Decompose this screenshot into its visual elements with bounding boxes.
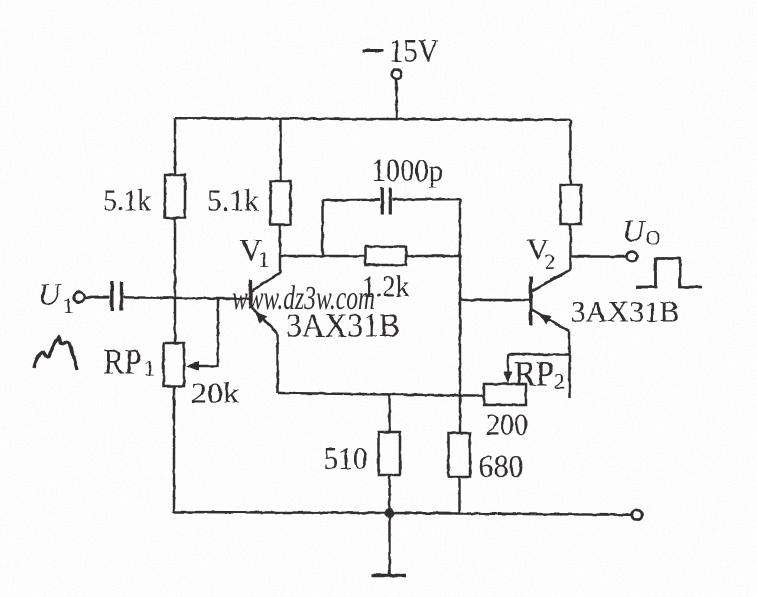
wire emitter rail [278, 393, 485, 396]
wire cap branch right horizontal [393, 198, 461, 201]
wire left branch lower [173, 386, 175, 513]
potentiometer RP1 body [164, 343, 185, 386]
resistor R1 5.1k body [165, 175, 185, 218]
watermark www.dz3w.com [232, 280, 375, 317]
wire cap branch left horizontal [323, 198, 381, 201]
RP1 wiper arrowhead [186, 361, 199, 371]
transistor V1 emitter diagonal [252, 307, 278, 335]
resistor R6 510 body [379, 432, 401, 475]
wire RP2 wiper top line [508, 353, 570, 355]
wire V2 base line [460, 299, 530, 301]
wire ground stem [388, 513, 390, 575]
transistor V2 emitter diagonal [532, 310, 570, 332]
transistor V1 base bar [249, 280, 252, 309]
wire 510 upper [388, 394, 390, 432]
wire left branch middle [174, 218, 176, 343]
resistor R4 680 body [449, 433, 471, 477]
transistor V1 emitter arrowhead PNP [255, 312, 267, 324]
wire 5.1k no2 upper [279, 119, 281, 181]
transistor V2 emitter arrowhead PNP [538, 314, 552, 325]
minus sign of -15V [363, 49, 384, 52]
output terminal circle [627, 252, 637, 262]
wire left branch upper [174, 118, 176, 175]
resistor R2 5.1k body [271, 181, 291, 225]
wire supply drop [395, 79, 397, 119]
wire 680 lower [458, 477, 460, 513]
wire cap branch left vertical [321, 200, 323, 256]
wire top rail [175, 118, 571, 120]
transistor V2 base bar [529, 277, 532, 326]
output ground terminal circle [632, 510, 642, 520]
supply terminal -15V circle [392, 70, 402, 80]
wire input to capacitor [85, 296, 110, 298]
wire 1.2k line [280, 255, 460, 257]
wire V2 emitter drop [568, 332, 570, 399]
capacitor C2 1000p plates [382, 188, 390, 215]
wire RP2 wiper vertical [507, 355, 509, 373]
resistor R3 1.2k body [366, 247, 407, 266]
RP2 wiper arrowhead [504, 372, 513, 384]
capacitor C1 input plates [112, 282, 122, 312]
wire input line to V1 base [124, 297, 250, 299]
transistor V1 collector diagonal [252, 273, 281, 292]
output pulse waveform icon [636, 259, 702, 288]
wire V2 collector to output [571, 224, 627, 257]
input terminal circle [74, 292, 85, 303]
resistor R5 body [561, 185, 582, 224]
wire V1 emitter drop [276, 334, 278, 393]
wire right branch vertical [459, 200, 461, 434]
wire V2 collector branch upper [569, 120, 571, 185]
transistor V2 collector diagonal [532, 270, 571, 292]
wire 510 lower [388, 475, 390, 513]
junction dot bottom rail [385, 508, 395, 518]
wire V1 collector vertical [279, 225, 281, 274]
input hump waveform icon [34, 338, 77, 371]
wire V2 collector vertical [569, 256, 571, 269]
potentiometer RP2 body [484, 384, 526, 405]
wire RP1 wiper drop [196, 298, 218, 366]
ground bar [372, 574, 407, 578]
wire bottom rail [174, 512, 632, 515]
